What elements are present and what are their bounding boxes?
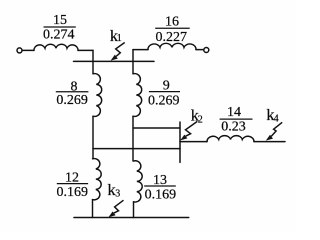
svg-text:0.169: 0.169: [145, 187, 177, 202]
label 12/0.169: [56, 171, 88, 200]
svg-text:2: 2: [198, 114, 203, 125]
wire: [78, 49, 93, 51]
wire: [133, 49, 148, 51]
fault arrow k1: [111, 43, 125, 61]
inductor 16: [148, 43, 196, 49]
node bus k1: [74, 60, 155, 62]
svg-text:16: 16: [165, 15, 179, 30]
svg-text:0.274: 0.274: [43, 28, 75, 43]
label 16/0.227: [155, 15, 190, 45]
label 9/0.269: [148, 78, 180, 108]
wire: [254, 141, 285, 143]
inductor 12: [93, 159, 102, 200]
svg-text:3: 3: [115, 188, 120, 199]
label k1: [110, 27, 122, 45]
wire: [196, 49, 204, 51]
svg-text:0.227: 0.227: [156, 30, 188, 45]
label k4: [266, 106, 278, 124]
label 13/0.169: [144, 173, 176, 202]
svg-text:15: 15: [53, 13, 67, 28]
wire: [180, 141, 207, 143]
svg-text:4: 4: [274, 114, 279, 125]
label 14/0.23: [220, 105, 253, 134]
fault arrow k2: [180, 121, 197, 140]
terminal circle right: [204, 48, 209, 53]
svg-text:1: 1: [117, 33, 122, 44]
node bus k2: [179, 122, 181, 162]
inductor 9: [133, 74, 142, 117]
label 15/0.274: [43, 13, 76, 43]
svg-text:0.23: 0.23: [221, 120, 246, 135]
wire: [132, 50, 134, 74]
inductor 13: [134, 161, 143, 202]
svg-text:0.269: 0.269: [148, 93, 180, 108]
inductor 8: [93, 74, 102, 117]
bottom bus: [74, 217, 189, 219]
fault arrow k4: [266, 122, 282, 140]
wire: [92, 200, 94, 218]
wire: [92, 116, 94, 159]
branch wire k2: [133, 127, 180, 129]
wire: [132, 116, 134, 161]
bus wire middle: [93, 148, 180, 150]
svg-text:0.169: 0.169: [56, 185, 88, 200]
inductor 15: [34, 44, 78, 50]
svg-text:14: 14: [227, 105, 241, 120]
inductor 14: [207, 136, 254, 142]
wire: [22, 49, 34, 51]
wire: [133, 202, 135, 218]
svg-text:0.269: 0.269: [56, 93, 88, 108]
fault arrow k3: [108, 200, 123, 217]
label 8/0.269: [56, 79, 89, 108]
label k3: [108, 181, 121, 200]
wire: [92, 50, 94, 73]
terminal circle left: [17, 48, 22, 53]
label k2: [191, 106, 203, 125]
